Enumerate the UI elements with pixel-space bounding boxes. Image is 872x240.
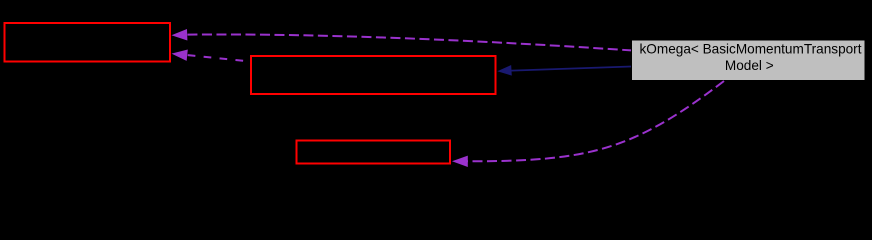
edge e4 dashed usage curve: kOmega to box3 [452,81,724,167]
node box1 (truncated class, top-left) [5,23,171,62]
node box3 (bottom) [297,141,451,164]
edge e3 solid inheritance: kOmega to box2 [497,65,631,76]
svg-text:kOmega< BasicMomentumTransport: kOmega< BasicMomentumTransport [640,42,862,57]
svg-text:Model >: Model > [725,58,774,73]
edge e2 dashed usage: box2 to box1 (lower) [171,48,250,62]
node kOmega (current class, grey) [632,40,866,81]
edge e1 dashed usage: kOmega to box1 (upper) [171,29,631,50]
node box2 (base class, middle) [251,56,496,94]
